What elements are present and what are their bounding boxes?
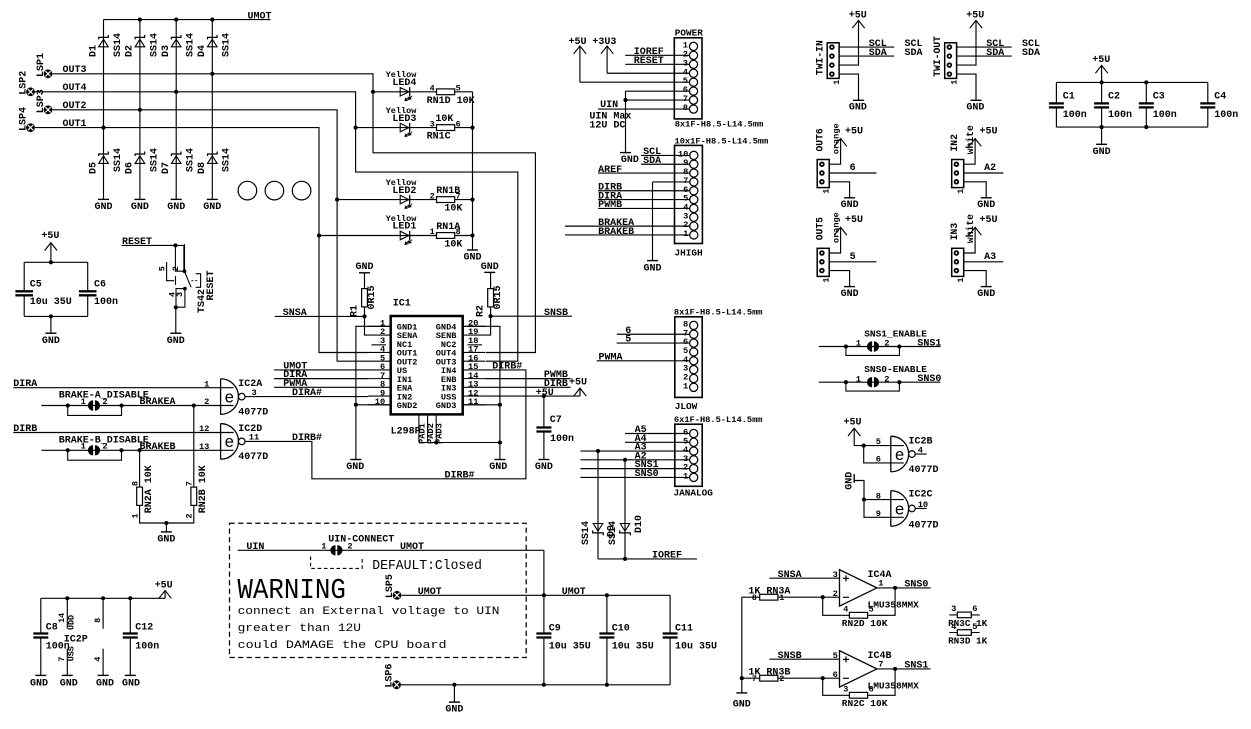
capacitor C3 100n (1139, 82, 1177, 127)
wire R1 to SENA pin2 (365, 316, 369, 335)
svg-text:GND: GND (621, 155, 639, 166)
wire R2 to SENB pin19 (485, 316, 490, 335)
label SCL right2 (1022, 39, 1040, 50)
svg-text:PAD3: PAD3 (435, 423, 445, 444)
wire TWI-IN SDA (839, 48, 894, 59)
svg-text:C9: C9 (549, 624, 561, 635)
svg-text:PWMB: PWMB (598, 200, 622, 211)
svg-text:7: 7 (683, 328, 688, 338)
svg-text:SNS0: SNS0 (917, 374, 941, 385)
svg-text:10K: 10K (444, 240, 462, 251)
ground IC2P vss (60, 675, 78, 689)
svg-text:D1: D1 (88, 45, 99, 57)
node R2/SENB junction (489, 314, 493, 318)
svg-text:LED4: LED4 (392, 78, 416, 89)
svg-text:LSP5: LSP5 (385, 574, 396, 598)
wire IC2C inputs tied to ground (854, 481, 904, 518)
label net BRAKEA (140, 397, 176, 408)
wire RN3A to IC4A -input (742, 596, 840, 598)
svg-text:e: e (895, 500, 905, 519)
svg-text:SDA: SDA (905, 48, 923, 59)
svg-text:DIRB#: DIRB# (292, 433, 322, 444)
capacitor C6 100n (79, 279, 118, 308)
ic L298 thermal pads (391, 414, 502, 444)
svg-text:C7: C7 (550, 415, 562, 426)
capacitor C2 100n (1094, 82, 1132, 127)
ic IC4P power pins (93, 598, 103, 675)
svg-text:1: 1 (878, 579, 883, 589)
ground POWER (620, 153, 639, 167)
dashed closed indicator box (311, 557, 363, 569)
label warning line1 (238, 606, 500, 618)
svg-text:SDA: SDA (1022, 48, 1040, 59)
wire OUT5 ground (829, 271, 849, 287)
svg-text:2: 2 (102, 397, 107, 407)
svg-text:6: 6 (456, 119, 461, 129)
svg-text:PWMA: PWMA (283, 379, 307, 390)
wire SNS1 enable net (819, 328, 942, 349)
ground above R2 (481, 262, 499, 273)
node RN3B junction (740, 676, 744, 680)
svg-text:GND: GND (841, 289, 859, 300)
resistor RN3C 1K spare (948, 604, 987, 629)
svg-text:3: 3 (683, 364, 688, 374)
svg-text:IOREF: IOREF (652, 551, 682, 562)
diode D7 SS14 (161, 148, 197, 174)
svg-text:D2: D2 (125, 45, 136, 57)
svg-text:6: 6 (972, 604, 977, 614)
ground JHIGH (643, 261, 661, 275)
svg-text:4077D: 4077D (238, 407, 268, 418)
svg-text:C1: C1 (1063, 92, 1075, 103)
power +5V OUT5 (829, 215, 863, 253)
svg-text:10u 35U: 10u 35U (675, 641, 717, 652)
wire net IOREF bottom (598, 551, 697, 562)
svg-text:SS14: SS14 (186, 148, 197, 172)
svg-text:13: 13 (468, 380, 478, 390)
LED LED1 Yellow (386, 214, 418, 245)
wire PWMB to JHIGH pin4 (598, 200, 690, 211)
wire IC2C output stub (915, 507, 926, 509)
svg-text:2: 2 (347, 542, 352, 552)
wire net UMOT to pin6 (274, 361, 368, 372)
svg-text:16: 16 (468, 353, 478, 363)
wire TWI-OUT SDA (957, 48, 1012, 59)
svg-text:RESET: RESET (122, 237, 152, 248)
svg-text:OUT1: OUT1 (63, 119, 87, 130)
resistor RN2A 10K (130, 465, 155, 518)
svg-text:100n: 100n (1063, 110, 1087, 121)
op gate IC2A 4077D (204, 379, 268, 419)
svg-text:GND: GND (481, 262, 499, 273)
svg-text:1: 1 (81, 442, 86, 452)
wire OUT5 signal 5 (829, 252, 876, 263)
svg-text:5: 5 (850, 252, 856, 263)
wire TWI-OUT SCL (957, 39, 1012, 50)
svg-text:1: 1 (81, 397, 86, 407)
svg-text:6x1F-H8.5-L14.5mm: 6x1F-H8.5-L14.5mm (674, 415, 763, 425)
svg-text:1: 1 (949, 80, 959, 85)
svg-text:LSP4: LSP4 (18, 107, 29, 131)
wire diode column D3/D7 (175, 20, 177, 200)
node pin10 gnd junction (354, 403, 358, 407)
svg-text:BRAKEA: BRAKEA (140, 397, 176, 408)
node bottom rail junctions (452, 683, 609, 687)
node top rail junctions (542, 593, 609, 597)
svg-text:GND: GND (157, 535, 175, 546)
wire IC4B feedback loop (823, 669, 895, 695)
wire LED row LED4 (373, 91, 473, 93)
svg-text:GND: GND (60, 679, 78, 690)
label SDA right2 (1022, 48, 1040, 59)
diode D3 SS14 (161, 33, 197, 57)
label SCL right (905, 39, 923, 50)
svg-text:5: 5 (158, 266, 168, 271)
wire bottom rail to ground (453, 685, 455, 702)
wire LSP5 UMOT to C9 rail (402, 587, 544, 598)
svg-text:connect an External voltage to: connect an External voltage to UIN (238, 606, 500, 618)
svg-text:2: 2 (430, 191, 435, 201)
wire switch to ground (175, 307, 177, 333)
wire IN2 signal A2 (964, 163, 1004, 174)
ground RN3 leg (733, 693, 751, 711)
svg-text:A2: A2 (984, 163, 996, 174)
node R1/SENA junction (362, 314, 366, 318)
power +5V IC2P rail (155, 580, 173, 598)
svg-text:UMOT: UMOT (418, 587, 442, 598)
wire RN2A pulldown from BRAKEB (139, 450, 141, 487)
svg-text:1: 1 (822, 278, 832, 283)
svg-text:GND: GND (733, 699, 751, 710)
node IC2B input junction (862, 444, 866, 448)
svg-text:3: 3 (843, 685, 848, 695)
svg-text:5: 5 (876, 437, 881, 447)
svg-text:RN1A: RN1A (436, 222, 460, 233)
svg-text:6: 6 (683, 337, 688, 347)
svg-text:+5U: +5U (845, 126, 863, 137)
svg-text:12U DC: 12U DC (589, 120, 625, 131)
svg-text:GND: GND (42, 336, 60, 347)
node BRAKEB to RN2A junction (138, 448, 142, 452)
wire A3 to JANALOG pin4 (580, 443, 689, 454)
switch TS42 RESET (158, 244, 217, 313)
svg-text:LED1: LED1 (392, 222, 416, 233)
svg-text:BRAKEB: BRAKEB (598, 227, 634, 238)
ground OUT6 (841, 198, 859, 211)
ground TWI-IN (849, 100, 867, 113)
capacitor C1 100n (1049, 82, 1087, 127)
svg-text:10u 35U: 10u 35U (30, 297, 72, 308)
svg-text:GND: GND (966, 103, 984, 114)
svg-text:D6: D6 (125, 162, 136, 174)
svg-text:6: 6 (683, 428, 688, 438)
LED LED3 Yellow (386, 106, 418, 137)
wire RN2A/RN2B to ground (140, 505, 194, 532)
svg-text:could DAMAGE the CPU board: could DAMAGE the CPU board (238, 640, 447, 652)
label warning line2 (238, 623, 361, 635)
connector JANALOG header (674, 415, 763, 498)
svg-text:7: 7 (57, 657, 67, 662)
wire C1-C4 bottom rail (1056, 126, 1207, 128)
mounting hole circles (238, 181, 311, 200)
svg-text:LMU358MMX: LMU358MMX (868, 599, 920, 610)
svg-text:GND: GND (122, 679, 140, 690)
node IC2C input junction (862, 498, 866, 502)
svg-text:+3U3: +3U3 (592, 37, 616, 48)
svg-text:UMOT: UMOT (562, 587, 586, 598)
wire IN2 ground (964, 182, 987, 198)
svg-text:GND3: GND3 (436, 401, 457, 411)
svg-text:SNSA: SNSA (778, 570, 802, 581)
svg-text:4: 4 (430, 84, 435, 94)
node IC2P rail junctions (65, 596, 132, 600)
connector POWER header (674, 28, 763, 130)
ground C7 (535, 460, 553, 473)
svg-text:10u 35U: 10u 35U (549, 641, 591, 652)
solder jumper BRAKE-A_DISABLE (66, 397, 124, 416)
svg-text:R2: R2 (476, 305, 487, 317)
svg-text:8: 8 (683, 167, 688, 177)
svg-text:+5U: +5U (844, 418, 862, 429)
svg-text:GND: GND (841, 200, 859, 211)
svg-text:2: 2 (683, 373, 688, 383)
diode D10 (620, 515, 646, 535)
svg-text:GND2: GND2 (397, 401, 418, 411)
svg-text:5: 5 (683, 346, 688, 356)
solder pad LSP2 (18, 71, 35, 96)
node OUT3 junctions (210, 72, 375, 94)
svg-text:OUT6: OUT6 (814, 128, 825, 151)
svg-text:AREF: AREF (598, 165, 622, 176)
svg-text:D4: D4 (197, 45, 208, 57)
node RESET junction (173, 243, 177, 247)
resistor RN3D 1K spare (948, 622, 987, 647)
svg-text:1: 1 (832, 80, 842, 85)
resistor network element RN12 (430, 186, 463, 215)
wire PWMA to JLOW pin4 (597, 352, 690, 363)
label net BRAKEB (140, 442, 176, 453)
svg-text:UIN: UIN (600, 100, 618, 111)
svg-text:DIRB#: DIRB# (445, 470, 475, 481)
svg-text:D8: D8 (197, 162, 208, 174)
svg-text:+5U: +5U (980, 215, 998, 226)
wire IC1 pin1/pin10 to ground left (356, 326, 391, 459)
wire LED row LED2 (337, 199, 472, 201)
svg-text:GND: GND (167, 202, 185, 213)
label BRAKE-A_DISABLE (59, 391, 149, 402)
resistor RN2B 10K (185, 465, 210, 518)
solder pad LSP5 (385, 574, 402, 600)
svg-text:+5U: +5U (1092, 55, 1110, 66)
svg-text:10K: 10K (444, 204, 462, 215)
svg-text:+5U: +5U (41, 231, 59, 242)
solder jumper BRAKE-B_DISABLE (66, 442, 124, 461)
wire OUT6 ground (829, 182, 849, 198)
svg-text:GND: GND (131, 202, 149, 213)
svg-text:GND: GND (96, 679, 114, 690)
svg-text:R1: R1 (350, 305, 361, 317)
svg-text:1: 1 (956, 189, 966, 194)
wire net OUT3 from LSP1 to IC1 pin17 (52, 65, 535, 352)
svg-text:POWER: POWER (675, 28, 704, 39)
wire diode D9 branch from A3 (597, 451, 599, 559)
svg-text:100n: 100n (135, 641, 159, 652)
wire RN3B to IC4B -input (742, 677, 840, 679)
wire RN3A/RN3B common leg to ground (741, 597, 743, 693)
node top rail dots (1100, 80, 1149, 84)
ground OUT5 (841, 287, 859, 300)
svg-text:5: 5 (625, 335, 631, 346)
capacitor C7 100n (536, 396, 574, 459)
svg-text:SNS0: SNS0 (635, 469, 659, 480)
svg-text:OUT3: OUT3 (63, 65, 87, 76)
diode D4 SS14 (197, 33, 233, 57)
svg-text:8x1F-H8.5-L14.5mm: 8x1F-H8.5-L14.5mm (674, 308, 763, 318)
svg-text:12: 12 (199, 424, 209, 434)
node pin6-7 junction (623, 98, 627, 102)
svg-text:RN1D 10K: RN1D 10K (427, 96, 475, 107)
ground IC4P (96, 675, 114, 689)
svg-text:RESET: RESET (634, 56, 664, 67)
node OUT2 junctions (138, 108, 339, 202)
svg-text:TWI-IN: TWI-IN (814, 40, 825, 75)
svg-text:+5U: +5U (155, 580, 173, 591)
svg-text:18: 18 (468, 336, 478, 346)
svg-text:SNSB: SNSB (544, 308, 568, 319)
svg-text:10: 10 (678, 149, 688, 159)
svg-text:GND: GND (489, 462, 507, 473)
svg-text:4077D: 4077D (909, 520, 939, 531)
svg-text:GND: GND (463, 253, 481, 264)
power +5V TWI-OUT (957, 10, 985, 65)
power +5V TWI-IN (839, 10, 867, 65)
svg-text:OUT2: OUT2 (63, 101, 87, 112)
wire diode D10 branch from A2 (624, 460, 626, 559)
power +5V IN3 (964, 215, 998, 253)
wire VMOT vertical into cap bank (543, 550, 545, 595)
wire net 6 to JLOW pin7 (617, 326, 690, 337)
wire diode column D4/D8 (211, 20, 213, 200)
wire VIN to POWER pin8 (598, 100, 689, 111)
svg-text:RN3D 1K: RN3D 1K (948, 635, 987, 646)
connector IN3 white (949, 214, 976, 283)
LED LED2 Yellow (386, 178, 418, 209)
svg-text:1: 1 (683, 381, 688, 391)
wire TWI-IN pin4 ground (839, 74, 858, 100)
warning dashed box (230, 523, 527, 657)
op gate IC2C 4077D (876, 489, 939, 531)
svg-text:RN1C: RN1C (427, 132, 451, 143)
wire SNS0 to JANALOG pin1 (580, 469, 689, 480)
node IC4B output junction (893, 667, 897, 671)
power +5V at pin12 (569, 377, 587, 396)
solder jumper SNS1_ENABLE (844, 339, 902, 356)
resistor RN3B 1K (748, 667, 790, 684)
resistor R2 0R15 (476, 272, 504, 317)
svg-text:0R15: 0R15 (367, 285, 378, 309)
connector JLOW header (674, 308, 763, 413)
node IOREF junction (623, 557, 627, 561)
svg-text:DEFAULT:Closed: DEFAULT:Closed (372, 558, 482, 574)
wire net PWMA to pin8 (274, 379, 368, 390)
wire to ground C2 (1101, 127, 1103, 144)
op-amp IC4A LMV358MMX (833, 570, 920, 611)
svg-text:GND: GND (167, 336, 185, 347)
svg-text:9: 9 (683, 158, 688, 168)
wire IN3 signal A3 (964, 252, 1004, 263)
svg-text:OUT5: OUT5 (814, 217, 825, 240)
svg-text:8: 8 (752, 594, 757, 603)
wire diode column D1/D5 (103, 20, 105, 200)
wire LED row LED1 (319, 235, 473, 237)
ground bottom rail (445, 702, 463, 716)
svg-text:7: 7 (752, 675, 757, 684)
wire SDA to JHIGH pin9 (641, 156, 690, 167)
svg-text:D5: D5 (88, 162, 99, 174)
capacitor C4 100n (1200, 82, 1238, 127)
svg-text:SNS1: SNS1 (904, 661, 928, 672)
wire BRAKEB through jumper to IC2D pin13 (41, 449, 233, 451)
svg-text:IC2C: IC2C (909, 489, 933, 500)
svg-text:UMOT: UMOT (400, 542, 424, 553)
power +5V for C5/C6 (41, 231, 59, 262)
capacitor C9 10u 35V (536, 595, 590, 685)
wire IC4B output SNS1 (877, 661, 931, 672)
diode D6 SS14 (125, 148, 161, 174)
svg-text:RESET: RESET (206, 270, 217, 300)
wire IC2B inputs tied (854, 446, 904, 463)
svg-text:e: e (224, 433, 234, 452)
ground under D6 (131, 199, 149, 213)
svg-text:1: 1 (779, 594, 784, 603)
svg-text:10K: 10K (435, 114, 453, 125)
wire IC1 pin14 PWMB stub (485, 370, 570, 381)
svg-text:2: 2 (884, 374, 889, 384)
ic IC1 pin names (397, 323, 457, 411)
wire net OUT2 from LSP3 to IC1 pin5 (52, 101, 368, 361)
node IC4A output junction (893, 586, 897, 590)
label SDA right (905, 48, 923, 59)
node OUT1 junctions (101, 126, 321, 238)
svg-text:0R15: 0R15 (493, 285, 504, 309)
wire LED row LED3 (356, 127, 473, 129)
ground LED bus (463, 250, 481, 264)
svg-text:LSP2: LSP2 (18, 71, 29, 95)
wire BRAKEB to JHIGH pin1 (565, 227, 690, 238)
svg-text:C2: C2 (1108, 92, 1120, 103)
svg-text:6: 6 (850, 163, 856, 174)
svg-text:100n: 100n (94, 297, 118, 308)
resistor network element RN14 (427, 84, 475, 107)
diode D8 SS14 (197, 148, 233, 174)
wire net 5 to JLOW pin6 (617, 335, 690, 346)
wire net SNSA (275, 308, 365, 319)
svg-text:GND: GND (94, 202, 112, 213)
svg-text:10u 35U: 10u 35U (612, 641, 654, 652)
svg-text:100n: 100n (1153, 110, 1177, 121)
svg-text:SS14: SS14 (149, 148, 160, 172)
ground under D7 (167, 199, 185, 213)
ic IC1 pin numbers (375, 319, 479, 407)
svg-text:20: 20 (468, 319, 478, 329)
svg-text:3: 3 (833, 570, 838, 580)
svg-text:LSP6: LSP6 (384, 664, 395, 688)
ground RN2A/RN2B (157, 532, 175, 546)
svg-text:2: 2 (102, 442, 107, 452)
svg-text:5: 5 (972, 622, 977, 632)
label VIN Max 12V DC (589, 111, 631, 131)
capacitor C11 10u 35V (663, 595, 717, 685)
